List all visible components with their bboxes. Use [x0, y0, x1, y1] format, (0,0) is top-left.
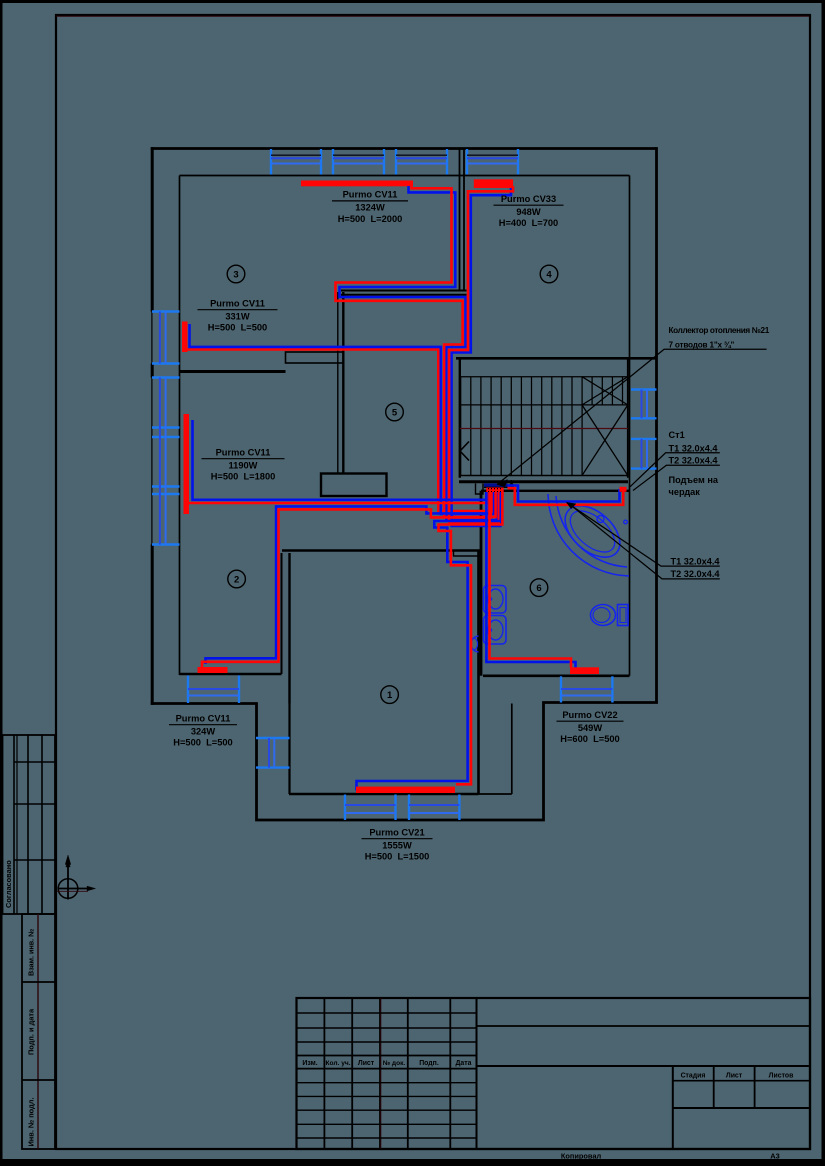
title mid vline	[672, 1066, 674, 1149]
svg-text:Purmo CV22: Purmo CV22	[562, 710, 617, 720]
room4 bottom / stairs top wall	[456, 357, 656, 360]
title row line y=1096.4	[297, 1095, 477, 1097]
Лист/Листов divider	[754, 1066, 756, 1108]
stamp block hline 3	[14, 859, 55, 861]
exterior wall left thin face at windows	[151, 312, 153, 545]
svg-text:6: 6	[536, 583, 541, 594]
title block outer	[297, 998, 811, 1149]
title row line y=1124.3	[297, 1123, 477, 1125]
page border bottom	[0, 1159, 825, 1166]
pipe T1 to CV11-1190W	[186, 492, 488, 512]
frame top dark-red tint	[57, 15, 810, 17]
pipe T2 from CV11-1190W	[193, 420, 487, 500]
riser cap	[620, 487, 627, 492]
stairs bottom line	[460, 475, 628, 477]
room number 5	[386, 403, 404, 421]
exterior wall outer face right	[655, 147, 658, 702]
title vline x=380	[379, 998, 381, 1149]
pipe T1 to CV11-324W	[202, 492, 491, 668]
exterior wall outer face top	[151, 147, 657, 150]
north arrow symbol	[58, 879, 78, 899]
bay inner right	[511, 704, 513, 795]
svg-text:948W: 948W	[516, 207, 541, 217]
title right hline 1	[477, 1025, 811, 1027]
svg-text:чердак: чердак	[669, 487, 701, 497]
svg-text:Копировал: Копировал	[561, 1152, 602, 1161]
wall below stairs	[459, 480, 628, 483]
flue rectangle room5 top	[286, 352, 344, 363]
stamp block hline 1	[14, 761, 55, 763]
riser St1 pipe T1	[508, 488, 624, 505]
window W9 (bottom-right)	[560, 676, 562, 702]
exterior wall outer face bottom	[151, 703, 658, 821]
leader arrow	[567, 502, 577, 508]
cells hline 1	[22, 981, 55, 983]
stairs direction chevron	[460, 442, 469, 461]
pipe T1 to CV21	[439, 492, 503, 784]
title vline x=476.5	[476, 998, 478, 1149]
svg-text:Кол. уч.: Кол. уч.	[325, 1060, 350, 1067]
svg-text:Согласовано: Согласовано	[4, 860, 13, 908]
window band left wall	[152, 376, 180, 378]
room2 bottom wall	[180, 673, 282, 676]
svg-text:549W: 549W	[578, 723, 603, 733]
radiator CV11-331W room3	[182, 322, 188, 353]
bay inner bottom	[289, 793, 479, 796]
room5 left wall thick	[342, 292, 344, 473]
stamp block vline 2	[16, 735, 18, 914]
stamp block vline 3	[27, 735, 29, 914]
wall rooms 3/2	[180, 370, 286, 373]
svg-text:H=500 L=500: H=500 L=500	[173, 738, 232, 748]
title vline x=352.2	[351, 998, 353, 1149]
svg-text:2: 2	[234, 574, 239, 585]
svg-text:Дата: Дата	[456, 1060, 472, 1067]
leader to manifold	[497, 349, 767, 484]
hall washbasin	[471, 636, 479, 652]
leader riser T2	[633, 465, 720, 490]
room number 1	[381, 686, 399, 704]
svg-text:Подп. и дата: Подп. и дата	[27, 1008, 36, 1055]
title row line y=1082.7	[297, 1082, 477, 1084]
stairs flight line 1	[460, 376, 628, 378]
room number 2	[228, 570, 246, 588]
title row line y=1028	[297, 1027, 477, 1029]
svg-text:H=500 L=500: H=500 L=500	[208, 323, 267, 333]
pipe T2 from CV22	[486, 492, 575, 669]
window W7 (right wall lower)	[631, 438, 657, 440]
title vline x=407.8	[407, 998, 409, 1149]
pipe T1 to CV11-1324W	[336, 184, 496, 518]
Стадия/Лист divider	[713, 1066, 715, 1108]
north arrow head	[65, 855, 71, 865]
svg-text:H=600 L=500: H=600 L=500	[560, 734, 619, 744]
title row line y=1110.2	[297, 1109, 477, 1111]
room number 6	[530, 579, 548, 597]
svg-text:Т2 32.0х4.4: Т2 32.0х4.4	[669, 456, 719, 466]
svg-text:Лист: Лист	[358, 1060, 375, 1067]
window W10 (bay left wall)	[256, 737, 290, 739]
washbasin 2	[484, 616, 507, 645]
window W3 (top wall)	[395, 149, 397, 175]
exterior wall outer face left segments	[151, 147, 154, 705]
room1 left wall line b	[288, 553, 290, 704]
leader riser T1	[630, 453, 720, 487]
pipe T2 from CV21	[357, 492, 501, 791]
maroon vline	[380, 998, 382, 1149]
window W5 (left wall upper)	[152, 310, 180, 312]
svg-text:H=500 L=2000: H=500 L=2000	[338, 214, 403, 224]
radiator CV11-1324W room3 top	[301, 181, 413, 187]
stairs right edge	[627, 358, 629, 478]
inner face right	[629, 176, 631, 676]
room number 4	[540, 265, 558, 283]
wall rooms 3/5 line b	[341, 294, 467, 296]
radiator CV11-324W room2 bottom	[198, 667, 228, 673]
svg-text:1190W: 1190W	[229, 460, 258, 470]
stamp block vline 4	[41, 735, 43, 914]
svg-text:Purmo CV11: Purmo CV11	[210, 299, 265, 309]
stamp block vline 1	[13, 735, 15, 914]
svg-text:Purmo CV21: Purmo CV21	[369, 828, 424, 838]
page border right	[822, 0, 825, 1166]
page border top	[0, 0, 825, 3]
svg-text:Ст1: Ст1	[669, 430, 685, 440]
bathtub drain	[624, 520, 628, 524]
svg-text:3: 3	[233, 269, 238, 280]
svg-text:324W: 324W	[191, 726, 216, 736]
stove rectangle	[321, 474, 387, 497]
cells hline 2	[22, 1079, 55, 1081]
manifold anchor dot	[509, 483, 513, 487]
svg-text:Purmo CV33: Purmo CV33	[501, 194, 556, 204]
stamp block hline 2	[14, 803, 55, 805]
bay inner bottom 2	[479, 793, 512, 795]
svg-text:1555W: 1555W	[382, 840, 412, 850]
header row bottom	[297, 1068, 477, 1070]
svg-text:Коллектор отопления №21: Коллектор отопления №21	[669, 326, 770, 335]
stairs treads	[461, 377, 623, 476]
Стадия block bottom	[673, 1107, 810, 1109]
svg-text:Т2 32.0х4.4: Т2 32.0х4.4	[671, 569, 721, 579]
stairs flight line 2	[460, 404, 628, 406]
manifold collector N21	[484, 483, 508, 487]
svg-text:Стадия: Стадия	[681, 1073, 706, 1080]
window W2 (top wall)	[332, 149, 334, 175]
page border left	[0, 0, 3, 1166]
inner face left	[179, 176, 181, 676]
title vline x=450.3	[449, 998, 451, 1149]
svg-text:1324W: 1324W	[355, 203, 385, 213]
pipe T1 to CV22	[490, 492, 572, 668]
window W1 (top wall)	[270, 149, 272, 175]
svg-text:Инв. № подл.: Инв. № подл.	[27, 1097, 36, 1146]
toilet	[618, 605, 629, 626]
header row top	[297, 1055, 477, 1057]
svg-text:Подп.: Подп.	[419, 1060, 439, 1067]
title row line y=1138	[297, 1137, 477, 1139]
room1 top wall inner	[453, 555, 481, 557]
svg-text:Purmo CV11: Purmo CV11	[216, 448, 271, 458]
room1 right wall	[477, 551, 480, 795]
svg-text:Листов: Листов	[769, 1073, 794, 1080]
pipe T2 from CV11-324W	[206, 492, 490, 664]
svg-text:Изм.: Изм.	[302, 1060, 317, 1067]
svg-text:4: 4	[546, 269, 552, 280]
washbasin 1	[484, 586, 507, 614]
room1 top wall	[282, 549, 481, 552]
svg-text:Т1 32.0х4.4: Т1 32.0х4.4	[671, 557, 721, 567]
window W12 (bay bottom b)	[408, 795, 410, 821]
room1 top wall jog	[453, 551, 455, 557]
radiator CV11-1190W room2	[184, 414, 190, 514]
svg-text:Purmo CV11: Purmo CV11	[176, 714, 231, 724]
attachment cells column	[22, 914, 55, 1149]
wall rooms 3/4 line a	[459, 149, 461, 290]
pipe T2 from CV11-331W	[190, 324, 495, 514]
svg-text:Лист: Лист	[726, 1073, 743, 1080]
bathtub faucet	[597, 516, 604, 523]
pipe T2 from CV33	[452, 188, 511, 526]
title row line y=1013	[297, 1012, 477, 1014]
leader bath pipes T1	[567, 502, 720, 566]
svg-text:А3: А3	[770, 1152, 779, 1161]
radiator CV33-948W room4	[474, 179, 513, 188]
leader bath pipes T2	[571, 505, 720, 579]
window W4 (top wall)	[466, 149, 468, 175]
door notch below stairs	[476, 484, 484, 495]
pipe T1 to CV33	[449, 186, 513, 523]
bay inner left	[288, 704, 290, 795]
bathroom top wall	[481, 490, 630, 492]
svg-text:H=400 L=700: H=400 L=700	[499, 218, 558, 228]
bathtub corner	[548, 494, 629, 576]
room number 3	[227, 265, 245, 283]
bathroom left wall	[480, 491, 483, 676]
east arrow head	[87, 886, 96, 891]
signature stamp block (left margin)	[3, 735, 56, 914]
pipe T2 from CV11-1324W	[340, 186, 498, 520]
Стадия header underline	[673, 1080, 810, 1082]
room1 left wall line a	[281, 553, 283, 674]
title vline x=324.4	[323, 998, 325, 1149]
riser St1 pipe T2	[508, 486, 620, 502]
inner face bottom-right	[483, 674, 630, 677]
stairs landing line (dark red)	[460, 428, 628, 430]
svg-text:№ док.: № док.	[383, 1060, 406, 1067]
room5 left wall thin	[337, 292, 339, 473]
wall rooms 3/5 line a	[341, 290, 467, 292]
wall rooms 3/4 line b	[463, 149, 465, 290]
stairs left wall	[459, 358, 461, 478]
svg-text:Т1 32.0х4.4: Т1 32.0х4.4	[669, 444, 719, 454]
svg-text:331W: 331W	[225, 311, 250, 321]
inner face top	[180, 175, 630, 177]
stairwell cross lines	[582, 377, 628, 476]
svg-text:7 отводов 1"х ¾": 7 отводов 1"х ¾"	[669, 340, 735, 349]
title row line y=1042	[297, 1041, 477, 1043]
svg-text:H=500 L=1500: H=500 L=1500	[365, 852, 430, 862]
svg-text:5: 5	[392, 407, 398, 418]
pipe T1 to CV11-331W	[185, 349, 493, 511]
svg-text:1: 1	[387, 690, 393, 701]
svg-text:Подъем на: Подъем на	[669, 475, 719, 485]
svg-text:Взам. инв. №: Взам. инв. №	[27, 929, 36, 976]
svg-text:H=500 L=1800: H=500 L=1800	[211, 472, 276, 482]
cells divider	[37, 914, 39, 1149]
title right hline 2	[477, 1065, 811, 1067]
window W11 (bay bottom a)	[344, 795, 346, 821]
window W6 (right wall upper)	[631, 388, 657, 390]
window W8 (bottom-left)	[187, 676, 189, 704]
svg-text:Purmo CV11: Purmo CV11	[343, 190, 398, 200]
